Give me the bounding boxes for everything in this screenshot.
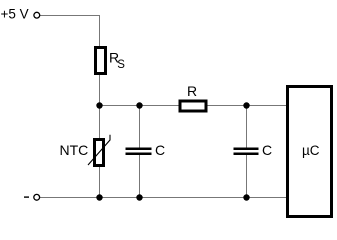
svg-text:S: S — [117, 59, 125, 71]
svg-text:µC: µC — [302, 143, 320, 158]
svg-text:NTC: NTC — [60, 142, 89, 158]
svg-text:+5 V: +5 V — [1, 7, 29, 22]
svg-text:C: C — [155, 142, 165, 158]
svg-text:R: R — [187, 83, 197, 99]
svg-text:C: C — [262, 142, 272, 158]
